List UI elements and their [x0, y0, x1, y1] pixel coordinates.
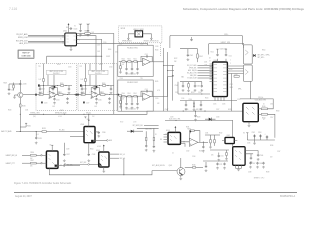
svg-text:C538: C538: [248, 172, 252, 174]
capacitor C530 polarized: [19, 83, 21, 86]
svg-text:R558: R558: [276, 111, 280, 113]
svg-text:47K: 47K: [157, 103, 160, 105]
resistor out inline A: [58, 94, 63, 96]
wire to U505 pin: [46, 131, 84, 133]
svg-text:U500: U500: [214, 60, 218, 62]
dark cap plus A: [38, 84, 40, 86]
wire caps row y140: [247, 139, 275, 141]
power above U506: [103, 148, 105, 153]
svg-text:CONN J500: CONN J500: [21, 55, 30, 57]
ground caps row: [254, 140, 256, 142]
pin dark dot A: [35, 94, 37, 96]
wire speaker minus lead: [128, 34, 135, 38]
note box part of conn B: [89, 70, 109, 75]
capacitor C572: [223, 163, 225, 166]
wire U502 out to RX filter: [77, 44, 148, 46]
resistor input B: [80, 94, 82, 96]
dashed box TX audio stage A: [36, 64, 77, 111]
resistor row Ba: [103, 85, 106, 87]
resistor input A: [38, 94, 40, 96]
capacitor C542 top: [187, 49, 189, 54]
svg-text:U502: U502: [63, 31, 67, 33]
svg-text:R514: R514: [229, 69, 232, 71]
far left resistor: [13, 85, 15, 88]
wire opamp out B: [99, 94, 119, 96]
svg-text:C522: C522: [230, 84, 234, 86]
svg-text:R516: R516: [189, 99, 192, 101]
wire jack down to audio PA: [249, 81, 251, 99]
pin1 mark U507: [55, 165, 57, 167]
svg-text:0.1: 0.1: [37, 134, 39, 136]
svg-text:C525: C525: [213, 104, 217, 106]
dark pin right A: [75, 94, 77, 96]
svg-text:SPKR_COM: SPKR_COM: [18, 37, 28, 39]
extra caps bottom mid: [218, 153, 220, 155]
resistor chain c1: [134, 61, 137, 63]
wire far left link: [9, 83, 20, 85]
dark cap plus B: [80, 84, 82, 86]
svg-text:VAG: VAG: [181, 76, 184, 79]
svg-text:NU: NU: [66, 27, 68, 29]
resistor chain b1: [128, 61, 131, 63]
wire left column vertical: [19, 80, 21, 132]
capacitor filter B2: [108, 97, 110, 100]
svg-text:MTRB_2.85V: MTRB_2.85V: [30, 112, 40, 114]
junction dots y56: [96, 56, 97, 57]
extra res bottom mid: [226, 153, 228, 156]
wire U506 bottom ground: [103, 167, 105, 170]
op-amp U503A: [49, 91, 56, 98]
svg-text:TP2: TP2: [80, 66, 83, 68]
power tap C/R labels: [25, 123, 27, 124]
capacitor C552a: [254, 135, 256, 141]
resistor shunt 2: [120, 101, 122, 104]
pin1 mark U506: [100, 163, 103, 166]
svg-text:220: 220: [100, 92, 103, 94]
far left column parts: [8, 84, 10, 88]
svg-text:HNDST_MIC_HI: HNDST_MIC_HI: [6, 155, 18, 157]
wire vertical x163.6: [163, 48, 165, 111]
wire U502 out down x101.7: [77, 39, 102, 70]
capacitor C554 polarized: [266, 136, 268, 141]
svg-text:C522: C522: [41, 89, 45, 91]
svg-text:(NC): (NC): [33, 116, 36, 118]
svg-text:C543: C543: [175, 85, 179, 87]
svg-text:C553: C553: [145, 54, 148, 56]
wire conn box stubs A: [48, 75, 54, 86]
capacitor C566: [257, 151, 259, 154]
svg-text:V2: V2: [50, 145, 52, 147]
svg-text:R551: R551: [262, 117, 266, 119]
wire chain x146.2: [145, 131, 147, 137]
svg-text:J500 PIN 2: J500 PIN 2: [53, 73, 60, 75]
svg-text:R542: R542: [199, 56, 203, 58]
svg-text:5: 5: [61, 39, 62, 41]
capacitor C565: [250, 154, 252, 157]
svg-text:R540: R540: [8, 110, 12, 112]
caps x217-226: [216, 163, 218, 166]
resistor R550: [261, 108, 267, 110]
power label x85: [84, 117, 86, 118]
svg-text:HNDST_PTT: HNDST_PTT: [6, 163, 15, 165]
svg-text:C521: C521: [56, 99, 60, 101]
wire: [28, 40, 65, 42]
wire link A to B: [74, 94, 80, 96]
svg-text:U506: U506: [96, 150, 100, 152]
svg-text:C517: C517: [119, 43, 123, 45]
wire U500 left pin stubs: [210, 64, 213, 82]
svg-text:R545: R545: [155, 81, 159, 83]
svg-text:C515: C515: [237, 99, 240, 101]
svg-text:4.7K: 4.7K: [157, 90, 160, 92]
svg-text:C513: C513: [68, 66, 72, 68]
dark junction A: [54, 86, 56, 88]
resistor chain a2: [119, 95, 122, 97]
op-amp RX 2: [143, 93, 151, 101]
svg-text:28: 28: [209, 58, 211, 60]
wire vertical x172.3: [171, 65, 173, 100]
ground below U502: [70, 46, 72, 48]
svg-text:C553: C553: [258, 132, 262, 134]
svg-text:C514: C514: [109, 66, 113, 68]
svg-text:AUD_SEL: AUD_SEL: [145, 127, 152, 130]
feedback resistor A: [51, 87, 54, 89]
svg-text:EXT_AUD_PA_EN: EXT_AUD_PA_EN: [152, 164, 165, 167]
chain x153.9: [153, 128, 155, 137]
svg-text:1K: 1K: [155, 134, 157, 136]
svg-text:C533: C533: [38, 138, 42, 140]
svg-text:SPKR: SPKR: [121, 28, 126, 30]
wire mic to U506: [89, 163, 98, 165]
wire feed row2: [153, 77, 173, 97]
svg-text:R531: R531: [186, 127, 190, 129]
wire stub y56 feed: [47, 55, 102, 57]
svg-text:AUD: AUD: [109, 139, 113, 142]
svg-text:.1UF: .1UF: [204, 65, 207, 67]
svg-text:R524: R524: [102, 83, 106, 85]
wire drop into box A: [43, 64, 45, 76]
feedback cap 2: [141, 91, 146, 96]
svg-text:C532: C532: [186, 151, 190, 153]
capacitor filter A2: [66, 97, 68, 100]
svg-text:R544: R544: [155, 50, 159, 52]
svg-text:C520: C520: [155, 98, 159, 100]
svg-text:+: +: [265, 133, 266, 135]
svg-text:R525: R525: [105, 94, 109, 96]
wire Q502 collector up: [180, 158, 182, 168]
svg-text:R533: R533: [199, 151, 203, 153]
svg-text:+C530: +C530: [22, 84, 27, 86]
wire opamp out A: [57, 94, 77, 96]
svg-text:TX_AUD_SUM: TX_AUD_SUM: [187, 77, 197, 80]
resistor R533 inline: [42, 131, 46, 133]
svg-text:4.7: 4.7: [263, 119, 265, 121]
caps above U500: [217, 51, 219, 63]
svg-text:HNDST_SPK: HNDST_SPK: [221, 42, 231, 44]
svg-text:C518: C518: [155, 46, 159, 48]
svg-text:Q502: Q502: [169, 165, 173, 167]
svg-text:INT_SPK-: INT_SPK-: [257, 57, 264, 59]
svg-text:+: +: [47, 91, 48, 93]
power bypass cap C505: [80, 26, 82, 29]
ic U507 option select: [46, 151, 58, 168]
wire stubs net rows left: [164, 65, 175, 75]
svg-text:10K: 10K: [211, 155, 214, 157]
wire U501 top feed: [240, 99, 273, 109]
wire bottom rail y100.6: [180, 100, 237, 102]
wire bottom mid link: [210, 149, 229, 151]
note box part of conn A: [47, 70, 67, 75]
svg-text:HNDST_SPKR: HNDST_SPKR: [133, 29, 144, 31]
svg-text:C571: C571: [219, 164, 222, 166]
pin dark dot B: [77, 94, 79, 96]
svg-text:EXT_MIC: EXT_MIC: [80, 162, 86, 164]
wire U511 out: [198, 141, 208, 143]
dark mark low B: [83, 102, 85, 104]
resistor R536: [22, 154, 30, 156]
svg-text:C507: C507: [79, 24, 83, 26]
svg-text:C550 C551 C552: C550 C551 C552: [125, 74, 136, 76]
svg-text:0.1UF: 0.1UF: [97, 146, 101, 148]
svg-text:R536: R536: [270, 145, 274, 147]
wire U510 left pins: [164, 135, 169, 143]
svg-text:R554: R554: [262, 50, 266, 52]
svg-text:C523: C523: [175, 92, 179, 94]
svg-text:R537: R537: [30, 160, 34, 162]
capacitor C570 at Q: [205, 162, 207, 165]
capacitor extra A: [52, 86, 54, 88]
wire feed row1: [153, 61, 163, 63]
ic U512 regulator: [225, 137, 234, 143]
svg-text:R512: R512: [211, 52, 214, 54]
svg-text:R530: R530: [22, 105, 26, 107]
wire base: [152, 170, 177, 172]
ic U502: [65, 33, 77, 46]
shunt caps 1: [126, 62, 128, 67]
svg-text:10K: 10K: [30, 166, 33, 168]
capacitor C549 above U500: [225, 51, 227, 63]
arrow into U507 a: [36, 154, 46, 156]
wire drop into box B x84: [85, 64, 87, 76]
power arrow near R560: [190, 132, 192, 134]
svg-text:R513: R513: [38, 94, 41, 96]
capacitor extra B: [94, 86, 96, 88]
svg-text:J500 PIN 4: J500 PIN 4: [95, 73, 102, 75]
svg-text:R572: R572: [120, 122, 123, 124]
wire drop into box B x90: [89, 64, 91, 71]
svg-text:RX AUDIO PA 1: RX AUDIO PA 1: [127, 46, 138, 49]
svg-text:R521: R521: [63, 94, 67, 96]
svg-text:+: +: [89, 91, 90, 93]
resistor R562 vertical: [214, 140, 216, 143]
svg-text:C527: C527: [86, 103, 90, 105]
resistor R530: [20, 104, 22, 107]
ic U510 dsp switch: [168, 132, 181, 144]
svg-text:1UF: 1UF: [81, 79, 84, 81]
svg-text:C556: C556: [270, 104, 274, 106]
transistor Q504: [18, 92, 23, 97]
svg-text:R541: R541: [127, 93, 130, 95]
wire U502 out down x96: [77, 36, 97, 70]
wire row y135: [205, 134, 220, 136]
diode CR502 on mesh: [209, 118, 212, 121]
svg-text:R532: R532: [219, 133, 223, 135]
capacitor C547b: [200, 101, 202, 104]
power V2 arrow: [68, 25, 70, 27]
feedback resistor R560: [190, 130, 194, 132]
wire U500 bottom pins: [215, 97, 224, 101]
wire pin stubs U502: [62, 35, 79, 43]
capacitor C545: [201, 82, 203, 85]
svg-text:HNDST_SPKR_PLUS: HNDST_SPKR_PLUS: [144, 41, 159, 43]
svg-text:C512: C512: [229, 56, 232, 58]
wire right column down: [231, 74, 233, 112]
svg-text:R560: R560: [187, 129, 191, 131]
transistor Q502: [177, 168, 185, 176]
svg-text:.1UF: .1UF: [97, 51, 100, 53]
speaker LS500: [135, 31, 143, 37]
wire speaker plus lead: [143, 34, 152, 38]
resistor chain a1: [119, 60, 122, 62]
svg-text:C547: C547: [165, 109, 169, 111]
dark junction B: [96, 86, 98, 88]
connector J501 speaker jack upper: [244, 45, 253, 64]
svg-text:C509: C509: [97, 45, 101, 47]
shunt caps 2: [126, 97, 128, 102]
svg-text:C510: C510: [103, 42, 107, 44]
svg-text:C548 C549: C548 C549: [220, 49, 227, 51]
svg-text:TP3: TP3: [140, 78, 143, 80]
svg-text:SPK+: SPK+: [224, 34, 228, 36]
inductor L500: [234, 75, 239, 77]
svg-text:C526: C526: [222, 104, 226, 106]
wire Q502 emitter ground: [180, 176, 182, 178]
wire into A from left: [23, 94, 38, 96]
wire inner row A: [40, 85, 72, 87]
capacitor input A: [39, 86, 41, 88]
wire net SPKR+ long run: [170, 35, 243, 48]
wire out 2: [151, 96, 153, 98]
note box PART CONN table: [18, 50, 34, 58]
resistor chain c2: [134, 95, 137, 97]
ic U513: [233, 147, 245, 166]
capacitor on rail y111: [195, 111, 197, 114]
svg-text:C516: C516: [181, 98, 184, 100]
svg-text:R550: R550: [90, 149, 94, 151]
svg-text:RX_FILT_AUD: RX_FILT_AUD: [16, 33, 28, 36]
svg-text:10K: 10K: [92, 32, 95, 34]
connector J501 speaker jack lower: [244, 65, 253, 81]
wire mic row: [66, 163, 89, 165]
svg-text:C535: C535: [247, 143, 251, 145]
svg-text:10V: 10V: [270, 157, 273, 159]
svg-text:C534: C534: [192, 156, 196, 158]
svg-text:33PF: 33PF: [230, 87, 233, 89]
svg-text:C519: C519: [120, 78, 124, 80]
svg-text:C566: C566: [260, 155, 264, 157]
svg-text:220: 220: [58, 92, 61, 94]
svg-text:0.1: 0.1: [172, 153, 174, 155]
svg-text:V2: V2: [74, 26, 76, 28]
svg-text:R520: R520: [60, 83, 64, 85]
capacitor C504: [69, 27, 72, 29]
resistor R546 bottom: [193, 103, 195, 106]
svg-text:C536: C536: [102, 132, 106, 134]
wire rail MTRB_2.85 y114.3: [29, 113, 117, 115]
svg-text:C537: C537: [66, 154, 70, 156]
svg-text:SW_B+: SW_B+: [258, 97, 263, 99]
svg-text:TP1: TP1: [38, 66, 41, 68]
svg-text:10K: 10K: [90, 98, 92, 100]
svg-text:RX_FILT_AUD: RX_FILT_AUD: [187, 64, 196, 67]
op-amp RX 1: [143, 58, 151, 66]
svg-text:C544: C544: [197, 86, 201, 88]
ic U506 mic amp: [99, 152, 109, 167]
dashed box SPKR: [119, 26, 162, 43]
svg-text:C521: C521: [204, 62, 208, 64]
svg-text:C523: C523: [44, 103, 48, 105]
svg-text:C573: C573: [133, 122, 136, 124]
svg-text:C538: C538: [92, 154, 96, 156]
ic U505 audio switch: [84, 127, 95, 143]
capacitor C567: [249, 162, 251, 165]
wire inner row B: [82, 85, 114, 87]
svg-text:MIC_LO: MIC_LO: [120, 158, 126, 160]
svg-text:C530: C530: [216, 117, 220, 119]
op-amp U511: [189, 138, 198, 146]
svg-text:R529: R529: [4, 83, 8, 85]
svg-text:10K: 10K: [122, 64, 124, 66]
wire rail y111 right half: [155, 110, 243, 112]
svg-text:MTRB_RX_AUD: MTRB_RX_AUD: [55, 111, 67, 114]
svg-text:R528: R528: [228, 109, 232, 111]
svg-text:C542: C542: [190, 55, 194, 57]
svg-text:U510: U510: [166, 130, 170, 132]
resistor shunt 1: [120, 66, 122, 69]
dashed box TX audio stage B: [78, 64, 117, 111]
svg-text:U512: U512: [227, 135, 231, 137]
power arrow above U510: [174, 129, 176, 132]
svg-text:RX AUDIO PA 2: RX AUDIO PA 2: [127, 81, 138, 84]
svg-text:R517: R517: [80, 94, 83, 96]
svg-text:C527: C527: [216, 109, 220, 111]
wire row y161: [203, 160, 228, 162]
resistor R565 right of Q: [185, 166, 193, 168]
svg-text:R550: R550: [262, 106, 266, 108]
svg-text:10: 10: [263, 104, 265, 106]
svg-text:R542: R542: [60, 110, 64, 112]
svg-text:C511: C511: [115, 52, 118, 54]
resistor chain b2: [128, 95, 131, 97]
power arrow above U505: [88, 122, 90, 127]
svg-text:R540: R540: [122, 93, 125, 95]
wire U506 outputs right: [109, 153, 119, 155]
wire: [28, 34, 65, 36]
svg-text:1UF: 1UF: [39, 79, 42, 81]
svg-text:1: 1: [230, 60, 231, 62]
resistor top B: [85, 79, 87, 82]
ic U500 audio codec: [213, 62, 228, 97]
svg-text:R526: R526: [185, 109, 189, 111]
capacitor C537 w ground: [63, 143, 65, 153]
svg-text:R565: R565: [192, 165, 196, 167]
feedback resistor B: [93, 87, 96, 89]
svg-text:10K: 10K: [30, 158, 33, 160]
box RX audio filter 2: [118, 80, 153, 111]
svg-text:10K: 10K: [122, 99, 124, 101]
wire out of B right: [116, 95, 122, 112]
svg-text:SPKR_SEL: SPKR_SEL: [189, 68, 197, 70]
